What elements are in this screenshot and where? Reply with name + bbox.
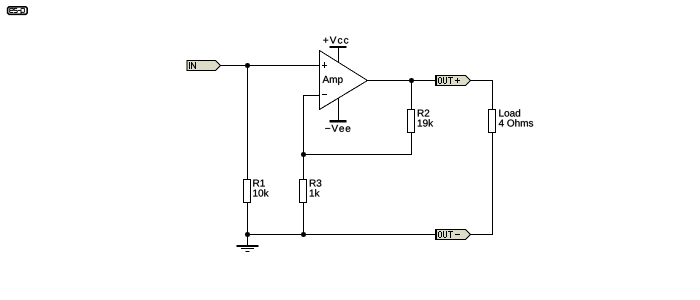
wire R1 to rail [247, 203, 249, 235]
resistor Load [489, 109, 534, 132]
wire feedback rail [304, 132, 412, 155]
resistor R1 [244, 180, 269, 203]
node input junction [245, 63, 250, 68]
wire op-amp output [368, 80, 436, 82]
wire bottom rail [248, 234, 436, 236]
node rail junction R3 [301, 232, 306, 237]
node feedback junction [301, 152, 306, 157]
OUT- tag [436, 230, 471, 240]
-Vee supply [325, 98, 350, 132]
ground [237, 235, 259, 252]
node output junction [409, 78, 414, 83]
wire input node down to R1 [247, 66, 249, 180]
wire R2 top to output [411, 81, 413, 110]
+Vcc supply [323, 37, 348, 63]
wire Load bottom to OUT- [471, 133, 493, 235]
wire inverting input [304, 96, 320, 180]
resistor R2 [408, 110, 434, 133]
op-amp U1 [320, 51, 368, 110]
IN tag [187, 61, 221, 71]
resistor R3 [300, 180, 322, 203]
wire IN to op-amp [221, 65, 320, 67]
wire R3 to rail [303, 203, 305, 235]
wire OUT+ to Load [471, 81, 493, 110]
node ground junction R1 [245, 232, 250, 237]
OUT+ tag [436, 76, 471, 86]
esp logo [8, 7, 28, 15]
